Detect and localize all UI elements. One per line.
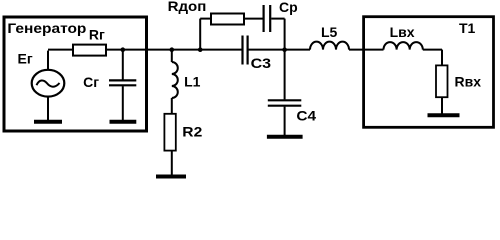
- svg-text:Lвх: Lвх: [390, 24, 415, 40]
- svg-text:C4: C4: [296, 108, 316, 124]
- svg-text:Rг: Rг: [89, 26, 105, 42]
- svg-text:Ср: Ср: [279, 0, 298, 15]
- svg-text:Генератор: Генератор: [7, 20, 86, 36]
- svg-text:L5: L5: [321, 24, 338, 40]
- svg-text:L1: L1: [184, 74, 201, 90]
- svg-text:Т1: Т1: [459, 20, 476, 36]
- svg-text:Rдоп: Rдоп: [168, 0, 207, 14]
- svg-text:Сг: Сг: [83, 74, 99, 90]
- svg-text:R2: R2: [182, 124, 202, 140]
- svg-text:Ег: Ег: [18, 51, 33, 67]
- svg-text:C3: C3: [251, 55, 272, 71]
- svg-text:Rвх: Rвх: [455, 74, 482, 90]
